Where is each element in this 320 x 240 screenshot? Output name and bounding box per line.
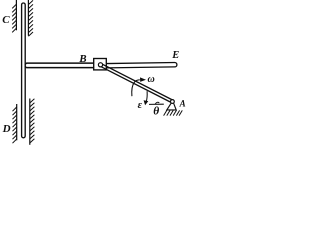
svg-text:θ: θ: [153, 106, 159, 118]
svg-text:ω: ω: [148, 74, 155, 85]
pin at A: [171, 100, 175, 104]
theta reference line: [149, 103, 164, 105]
guide wall D right: [30, 99, 35, 145]
vertical rod CD: [22, 3, 26, 138]
theta angle arc: [155, 102, 159, 104]
guide wall C right: [28, 0, 33, 36]
svg-text:D: D: [2, 123, 11, 135]
rod AB: [100, 64, 173, 103]
guide wall D left: [13, 104, 17, 143]
svg-text:ε: ε: [138, 100, 143, 111]
epsilon arrow: [144, 91, 149, 105]
guide wall C left: [12, 0, 16, 32]
ground hatching at A: [164, 110, 183, 115]
pin at B: [98, 63, 102, 67]
omega arrow: [132, 77, 146, 96]
svg-text:E: E: [171, 50, 179, 61]
support triangle at A: [167, 103, 176, 110]
slider block B: [94, 59, 107, 70]
rod BE: [107, 63, 177, 68]
svg-text:A: A: [179, 99, 186, 109]
svg-text:B: B: [78, 53, 86, 65]
horizontal bar arm (T-bar): [25, 63, 94, 65]
svg-text:C: C: [2, 14, 10, 26]
